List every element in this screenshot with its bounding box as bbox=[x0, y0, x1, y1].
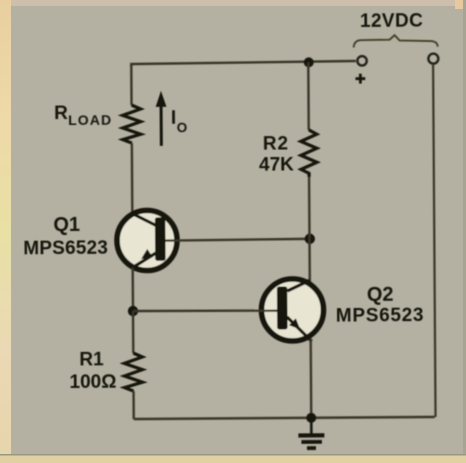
svg-text:O: O bbox=[177, 120, 188, 135]
ground bbox=[310, 418, 313, 433]
svg-text:I: I bbox=[171, 108, 176, 129]
wire Q2 base from junction bbox=[133, 310, 277, 312]
wire bottom rail bbox=[134, 417, 435, 419]
wire R2 branch from top rail bbox=[307, 62, 310, 130]
svg-text:R: R bbox=[54, 103, 68, 124]
node junction dot Q1 emitter / Q2 base / R1 bbox=[128, 306, 138, 316]
svg-text:Q2: Q2 bbox=[367, 284, 394, 306]
svg-text:Q1: Q1 bbox=[53, 214, 80, 236]
node junction dot Q1 base / R2 / Q2 collector bbox=[305, 234, 315, 244]
svg-text:LOAD: LOAD bbox=[68, 111, 112, 127]
resistor R2 bbox=[301, 130, 317, 177]
svg-text:MPS6523: MPS6523 bbox=[336, 305, 424, 327]
resistor RLOAD bbox=[123, 105, 141, 143]
terminal - (right supply terminal) bbox=[428, 54, 438, 64]
wire Q2 emitter down bbox=[309, 339, 312, 418]
wire Q1 base to R2 node bbox=[165, 239, 309, 241]
brace for 12VDC supply bbox=[354, 35, 438, 48]
wire RLOAD to Q1 collector bbox=[131, 143, 134, 215]
wire Q1 emitter down bbox=[131, 268, 134, 311]
wire junction to R1 bbox=[132, 311, 135, 353]
wire right side down bbox=[433, 64, 435, 417]
terminal + (left supply terminal) bbox=[357, 56, 366, 65]
svg-text:R2: R2 bbox=[263, 133, 289, 154]
wire R1 to bottom rail bbox=[132, 391, 135, 419]
transistor Q2 (PNP MPS6523) bbox=[261, 279, 323, 341]
wire left top (rail corner to RLOAD) bbox=[130, 64, 133, 105]
wire R2 to junction bbox=[308, 177, 311, 239]
wire top rail bbox=[131, 61, 356, 66]
svg-text:100Ω: 100Ω bbox=[69, 371, 116, 392]
node junction dot ground bbox=[306, 413, 316, 423]
current arrow IO bbox=[160, 105, 163, 146]
label + polarity bbox=[355, 74, 365, 84]
svg-text:12VDC: 12VDC bbox=[360, 11, 423, 32]
svg-text:MPS6523: MPS6523 bbox=[23, 238, 108, 260]
wire junction down to Q2 collector bbox=[308, 239, 311, 283]
transistor Q1 (PNP MPS6523) bbox=[117, 210, 177, 270]
node junction dot top rail / R2 branch bbox=[304, 57, 314, 67]
svg-text:47K: 47K bbox=[259, 154, 294, 175]
svg-text:R1: R1 bbox=[79, 349, 104, 370]
resistor R1 bbox=[124, 353, 142, 391]
